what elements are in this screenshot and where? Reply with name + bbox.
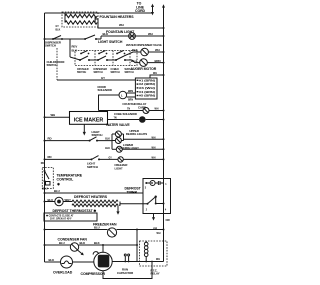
node defrost heater feed (44, 201, 46, 203)
svg-text:CAPACITOR: CAPACITOR (117, 271, 133, 275)
svg-text:OVERLOAD: OVERLOAD (53, 270, 73, 274)
wire relay card to WH bus (150, 75, 164, 78)
switch cube (115, 56, 126, 61)
lamp upper refrig 2 (112, 138, 121, 144)
label LIGHT SWITCH (92, 130, 103, 137)
svg-text:SWITCH: SWITCH (125, 72, 135, 74)
switch crusher (79, 56, 90, 61)
resistor fountain heater 2 (65, 21, 97, 24)
wire heater to timer (120, 203, 148, 205)
svg-text:GY: GY (56, 26, 60, 28)
wire WH bus below timer (163, 214, 165, 262)
ice maker box (70, 112, 108, 125)
svg-text:#1 (BRN): #1 (BRN) (139, 80, 155, 82)
svg-text:CUBE SOLENOID: CUBE SOLENOID (114, 112, 137, 116)
label CRUSHER SWITCH (77, 69, 89, 74)
svg-text:SWITCH: SWITCH (111, 72, 121, 74)
svg-text:BLK: BLK (105, 148, 110, 150)
svg-text:SWITCH: SWITCH (45, 44, 56, 48)
svg-text:RD: RD (48, 155, 52, 159)
wire childproof dashed drop (56, 48, 58, 80)
label LOWER REFRIG LIGHT (120, 143, 140, 150)
lamp freezer light (118, 157, 123, 162)
svg-text:ICE MAKER: ICE MAKER (74, 117, 104, 123)
overload protector (61, 256, 73, 268)
wire heater left ends (64, 13, 66, 16)
wire valve to WH bus (148, 51, 163, 53)
svg-text:SWITCH: SWITCH (47, 63, 58, 67)
wire freezer lamp to bus (123, 158, 163, 160)
svg-text:WH: WH (152, 157, 156, 159)
fountain relay card box (135, 78, 157, 99)
svg-text:✱ CONTACTS CLOSE AT: ✱ CONTACTS CLOSE AT (46, 214, 74, 217)
node freezer fan junction (163, 229, 165, 231)
label RUN CAPACITOR (117, 268, 133, 275)
label PTC RELAY (151, 269, 160, 276)
svg-text:BRN: BRN (128, 100, 133, 102)
svg-text:SWITCH: SWITCH (77, 72, 87, 74)
svg-text:SOLENOID: SOLENOID (98, 88, 112, 92)
svg-text:BLU: BLU (59, 241, 65, 245)
label DISPENSER SWITCH (94, 69, 108, 74)
wire door solenoid leads (99, 93, 136, 111)
svg-text:BLK: BLK (132, 48, 139, 52)
wire condenser fan row (45, 244, 71, 246)
capacitor run leads (124, 254, 129, 262)
temp control adjust cam (46, 182, 51, 186)
svg-text:BLK: BLK (103, 32, 110, 36)
svg-text:WH: WH (51, 113, 56, 117)
wire timer motor feed (45, 192, 144, 194)
motor auger (140, 59, 148, 67)
wire auger to WH bus (147, 62, 163, 64)
svg-text:WH: WH (119, 23, 124, 27)
svg-text:FOUNTAIN LIGHT: FOUNTAIN LIGHT (106, 30, 135, 34)
wire defrost drain arrow (116, 205, 119, 215)
svg-text:#4 (BRN): #4 (BRN) (139, 91, 155, 94)
svg-text:CUBED: CUBED (111, 69, 120, 71)
node freezer fan feed (44, 229, 46, 231)
label FREEZER LIGHT (115, 163, 128, 170)
wire upper lamps to bus (121, 134, 164, 141)
svg-text:DISPENSER: DISPENSER (94, 69, 108, 71)
svg-text:RD: RD (41, 163, 45, 165)
wire water valve to bus (146, 119, 164, 121)
node condenser fan feed (44, 244, 46, 246)
wire overload to compressor (73, 261, 95, 263)
motor freezer fan (107, 228, 116, 237)
switch cube pole2 (116, 51, 125, 55)
wire refrig light row (45, 140, 90, 142)
svg-text:RD: RD (48, 136, 52, 140)
wire cube solenoid row (99, 110, 144, 112)
svg-text:LIGHT: LIGHT (115, 167, 124, 171)
svg-text:AUGER MOTOR: AUGER MOTOR (131, 67, 157, 71)
svg-text:SWITCH: SWITCH (87, 165, 98, 169)
ptc relay box (dashed) (140, 241, 168, 266)
svg-text:WH: WH (152, 138, 156, 140)
svg-text:WH: WH (156, 259, 160, 261)
wire compressor top feed (102, 245, 104, 253)
wire fan return vertical (136, 230, 138, 262)
svg-text:CRUSHER: CRUSHER (77, 69, 89, 71)
wire condenser fan return (79, 244, 137, 246)
node refrig light feed (44, 140, 46, 142)
wire to lamp column (97, 134, 112, 149)
svg-text:BLK: BLK (49, 258, 56, 262)
lamp lower refrig (112, 146, 122, 152)
wire heaters right link (119, 202, 120, 206)
wire lower lamp to bus (122, 148, 163, 150)
dispenser switch cluster (dashed box) (75, 51, 137, 66)
label DEFROST TIMER (125, 187, 142, 195)
svg-text:BLK: BLK (94, 241, 101, 245)
svg-text:M: M (151, 182, 153, 185)
label TEMPERATURE CONTROL (57, 174, 83, 187)
svg-text:WH: WH (152, 147, 156, 149)
lamp fountain light (129, 33, 136, 40)
label LIGHT SWITCH (87, 162, 98, 169)
node fountain light switch feed (44, 38, 46, 40)
solenoid water dispenser valve (141, 48, 149, 56)
solenoid door (119, 91, 127, 99)
label DOOR SOLENOID (98, 85, 112, 92)
svg-text:SWITCH: SWITCH (92, 133, 103, 137)
svg-text:DEFROST HEATERS: DEFROST HEATERS (74, 195, 108, 199)
wire icemaker fill arrow (83, 124, 86, 135)
svg-text:COMPRESSOR: COMPRESSOR (81, 272, 106, 276)
label FOUNTAIN RELAY CARD (123, 102, 147, 109)
motor timer (145, 179, 163, 214)
note contacts box (44, 213, 97, 221)
svg-text:FOUNTAIN HEATERS: FOUNTAIN HEATERS (100, 15, 135, 19)
valve water (filled) (139, 116, 146, 123)
svg-text:SWITCH: SWITCH (94, 72, 104, 74)
wire fountain light row y36 (101, 35, 164, 37)
resistor defrost heater 2 (72, 204, 118, 207)
wire freezer light row (45, 158, 92, 160)
svg-text:BRN: BRN (128, 91, 133, 93)
switch timer contact (147, 196, 165, 205)
defrost timer box (143, 179, 171, 214)
svg-text:WATER DISPENSER VALVE: WATER DISPENSER VALVE (126, 43, 162, 47)
wire to freezer lamp (99, 158, 118, 160)
wire top BLK feed y13 (45, 12, 153, 14)
resistor fountain heater 1 (65, 14, 97, 17)
svg-text:GY: GY (101, 76, 105, 80)
lamp upper refrig 1 (112, 131, 121, 137)
svg-text:GY: GY (109, 158, 113, 160)
svg-text:BLU: BLU (42, 187, 48, 191)
svg-text:#3 (WH): #3 (WH) (139, 88, 155, 90)
temperature control box (dashed) (42, 168, 53, 189)
switch refrig light (89, 137, 98, 142)
solenoid cube (143, 108, 149, 114)
wire condenser drain arrow (78, 250, 84, 255)
label UPPER REFRIG LIGHTS (126, 129, 147, 136)
svg-text:REFRIG LIGHTS: REFRIG LIGHTS (126, 132, 147, 136)
wire cluster links (70, 52, 141, 63)
wire compressor run lead (112, 261, 163, 263)
svg-text:BLU: BLU (131, 59, 137, 63)
switch light switch (fountain) (84, 35, 101, 40)
wire cluster cell separators (95, 51, 130, 66)
svg-text:WH: WH (148, 32, 153, 36)
node LINE CORD label (135, 2, 146, 14)
wire timer drain arrow (152, 214, 155, 221)
wire BLK bus bottom corner (45, 261, 61, 263)
wire left BLK bus (44, 13, 46, 262)
switch dispenser lockout (52, 36, 63, 41)
label CUBED SWITCH (111, 69, 121, 74)
switch freezer light (91, 156, 101, 161)
fountain heaters enclosure (dashed) (62, 12, 98, 27)
svg-text:WH: WH (157, 233, 161, 235)
svg-text:#2 (BRN): #2 (BRN) (139, 84, 155, 86)
wire switch feed y39 (45, 38, 85, 40)
label CHILDPROOF SWITCH (47, 60, 66, 67)
svg-text:LIGHT SWITCH: LIGHT SWITCH (98, 40, 123, 44)
node freezer light feed (44, 158, 46, 160)
wire compressor start lead bottom (103, 262, 152, 279)
svg-text:CONTROL: CONTROL (57, 178, 75, 182)
svg-text:BLK: BLK (105, 139, 110, 141)
node icemaker feed (44, 116, 46, 118)
wire cube solenoid to bus (149, 110, 164, 112)
node defrost timer feed (44, 192, 46, 194)
wire heater right to WH bus (95, 16, 163, 28)
switch dispenser (97, 56, 108, 61)
thermostat defrost (bimetal disc) (55, 197, 63, 205)
svg-text:OR: OR (166, 218, 170, 222)
switch dispenser pole2 (98, 51, 107, 55)
resistor defrost heater 1 (63, 200, 118, 203)
label DISPENSER SWITCH (left) (45, 41, 61, 48)
relay PTC coil (144, 241, 148, 262)
wire WH bus arrow top (162, 4, 165, 178)
svg-text:BLK: BLK (56, 30, 61, 32)
label WATER SWITCH (125, 68, 135, 74)
switch crusher pole2 (80, 51, 89, 55)
motor condenser fan (70, 243, 78, 251)
svg-text:20°F, OPEN AT 45°F: 20°F, OPEN AT 45°F (50, 218, 72, 221)
svg-text:WATER VALVE: WATER VALVE (106, 123, 130, 127)
wire BLK to line cord (double arrow) (151, 4, 154, 16)
svg-text:#5 (BRN): #5 (BRN) (139, 96, 155, 98)
label relay card terminals (137, 80, 156, 98)
svg-text:BLU: BLU (54, 189, 60, 193)
wire defrost row (45, 201, 55, 203)
wire freezer fan to bus (117, 229, 164, 231)
wire dispenser feed vertical (69, 39, 71, 57)
svg-text:WH: WH (153, 73, 157, 75)
wire icemaker feed (45, 116, 70, 118)
svg-text:DEFROST THERMOSTAT ✱: DEFROST THERMOSTAT ✱ (53, 209, 98, 213)
svg-text:FREEZER FAN: FREEZER FAN (93, 223, 117, 227)
compressor motor (94, 252, 112, 270)
wire freezer fan row (45, 229, 108, 231)
svg-text:TIMER: TIMER (127, 191, 138, 195)
wire start winding curl (93, 252, 98, 255)
switch temperature control (44, 170, 50, 182)
svg-text:WH: WH (155, 109, 159, 111)
wire water valve row (108, 119, 140, 121)
wire GY row y80 (57, 79, 135, 81)
